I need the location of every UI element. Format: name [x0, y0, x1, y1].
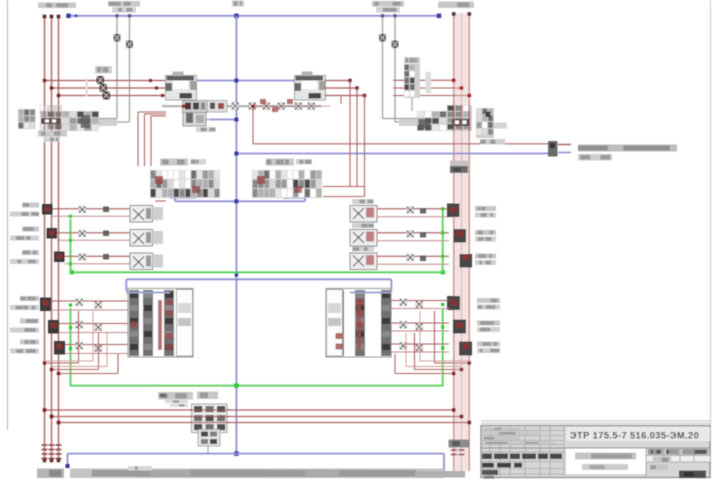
contact — [400, 343, 407, 350]
junction — [149, 79, 152, 82]
fuse overlay red marks — [260, 99, 266, 104]
circuit breaker QF1 — [40, 105, 62, 130]
label under QF2 — [480, 139, 505, 145]
bus breaker KM5 — [460, 254, 473, 268]
bus lines through QF1 — [44, 105, 46, 130]
label under QF1 — [38, 131, 67, 137]
green vertical right lower — [442, 308, 444, 386]
title grid v — [499, 426, 501, 478]
wire upper — [391, 322, 449, 324]
blue tab on K2 — [350, 292, 391, 294]
label 2VL line2 — [10, 236, 39, 241]
bus bottom ladder marks — [42, 444, 48, 446]
wire lower — [391, 330, 449, 332]
blue tab under starter A2 — [283, 197, 305, 199]
bus top terminal — [57, 15, 61, 19]
rows above title block 2 — [481, 422, 710, 424]
green junction — [69, 326, 72, 329]
right bus top terminal 2 — [467, 12, 471, 16]
label TV3 right2 — [477, 348, 500, 353]
bus lines through QF2 — [453, 105, 455, 131]
green vertical left upper — [70, 219, 72, 272]
contactor coil KM1 — [183, 111, 206, 127]
label above right control pair line1 — [372, 1, 404, 7]
blue tab on K1 — [126, 292, 170, 294]
switch box KM3 — [350, 206, 377, 223]
contact — [76, 299, 83, 306]
tap node on blue 2 — [393, 14, 396, 17]
grid — [679, 448, 681, 462]
left bus L3 — [58, 16, 60, 461]
K1 bottom fan wire 1 — [45, 362, 79, 364]
label KM5 right2 — [475, 260, 496, 265]
AVR device block — [192, 404, 228, 433]
grid — [693, 448, 695, 462]
junction on bus2 — [452, 372, 455, 375]
K2 bottom fan wire 2 — [415, 369, 462, 371]
title grid v — [524, 426, 526, 478]
fuse-switch box — [130, 206, 153, 223]
contact — [76, 322, 83, 329]
row wire upper — [53, 208, 131, 210]
contact2 — [95, 302, 102, 309]
darker patch 3 — [415, 471, 465, 478]
faint note under AVR label — [165, 400, 188, 403]
light tail from right tap pair — [399, 119, 417, 126]
blue bottom bus — [68, 453, 445, 455]
row contact — [407, 255, 414, 261]
right control tap pair — [382, 16, 384, 119]
row wire upper — [65, 255, 131, 257]
current transformer cluster TA1 — [18, 109, 36, 129]
bus joint shadow — [450, 161, 468, 167]
row mark — [420, 232, 426, 238]
title grid h2 — [481, 473, 564, 475]
blue link contactor1-contactor2 — [196, 80, 295, 82]
label above left control pair line2 — [112, 7, 136, 13]
bus top terminal — [43, 15, 47, 19]
label above right control pair line2 — [376, 7, 400, 13]
node — [234, 79, 238, 83]
row contact — [79, 207, 86, 213]
red stub after connector — [558, 144, 571, 146]
junction — [348, 79, 351, 82]
right tap bend — [383, 118, 450, 120]
power wire from KM2 — [325, 95, 365, 97]
stage val — [653, 457, 671, 464]
right tap fuse 1 — [379, 34, 386, 42]
green vertical left lower — [70, 308, 72, 386]
left bus L2 — [51, 16, 53, 461]
chain contact 7 — [295, 103, 302, 110]
bus top terminal — [50, 15, 54, 19]
label TV22 — [10, 328, 39, 333]
aux contacts row — [207, 101, 227, 113]
wire lower — [51, 309, 128, 311]
chain contact 6 — [278, 103, 285, 110]
label KM5 — [352, 247, 374, 252]
node small — [75, 15, 78, 18]
right bus bottom ladder marks — [451, 449, 457, 451]
row wire upper — [377, 208, 449, 210]
node blue top left — [66, 14, 71, 18]
row mark — [103, 207, 109, 213]
stage values cell — [646, 456, 710, 463]
junction — [363, 94, 366, 97]
chain contact 3 — [232, 103, 239, 110]
starter2 right-side loop — [323, 186, 365, 188]
tap node on blue — [115, 14, 118, 17]
title row text dark2 — [482, 470, 498, 475]
wire upper — [391, 300, 449, 302]
green junction — [69, 347, 72, 350]
label starter A2 — [266, 159, 294, 166]
label KM4 right2 — [475, 237, 496, 242]
label TV1 right — [477, 298, 500, 303]
bus joint bar — [450, 166, 468, 173]
wire lower — [59, 332, 128, 334]
K2 fan extra v — [419, 311, 421, 361]
K2 fan extra2 — [406, 366, 462, 368]
junction — [161, 94, 164, 97]
label TV2 right2 — [477, 327, 500, 332]
label 3VL line2 — [10, 259, 39, 264]
junction left — [43, 408, 47, 412]
control feed long red — [253, 143, 549, 145]
AVR bus wire 1 — [45, 409, 454, 411]
row wire lower — [53, 215, 131, 217]
label TV12 — [10, 305, 39, 310]
label TV2 — [20, 319, 39, 324]
green interlock line upper — [72, 271, 443, 273]
list hdr — [666, 449, 679, 455]
junction — [155, 87, 158, 90]
faint row3 — [483, 437, 520, 440]
power wire from KM2 — [325, 80, 351, 82]
dark sheet number blob — [679, 471, 706, 479]
bus breaker KM4 — [454, 229, 467, 243]
short riser to chain — [340, 97, 342, 105]
row contact — [407, 207, 414, 213]
label FU1 — [95, 66, 112, 74]
title grid h2 — [481, 461, 564, 463]
AVR sub block — [198, 430, 220, 447]
QF2 dark contact row — [452, 119, 470, 126]
control interlock chain — [162, 105, 321, 107]
blue control feed line — [236, 153, 548, 155]
title grid v — [509, 426, 511, 478]
green interlock line lower — [70, 385, 444, 387]
junction right — [452, 408, 456, 412]
chain contact 5 — [263, 103, 270, 110]
right bus highlight band — [453, 13, 470, 471]
blue tie line top — [68, 15, 441, 17]
QF2 side chain — [417, 111, 447, 131]
title grid v — [489, 426, 491, 478]
contact — [400, 299, 407, 306]
label KM3 right2 — [475, 213, 496, 218]
junction left — [50, 415, 54, 419]
dark bit in AVR label — [160, 394, 167, 398]
circuit breaker QF2 — [447, 105, 472, 131]
tap node on blue 2 — [128, 14, 131, 17]
grid — [646, 455, 710, 457]
row wire lower — [57, 239, 130, 241]
sheet frame left — [7, 0, 9, 430]
K1 fan extra2 v — [106, 333, 108, 367]
chain dark cell r — [419, 119, 431, 128]
dark cell — [486, 112, 491, 118]
junction red on chain — [251, 105, 254, 108]
row wire lower — [377, 263, 449, 265]
chain contact 2 — [211, 103, 218, 110]
green junction — [441, 346, 444, 349]
project title line1 — [575, 453, 636, 460]
light tail to tap pair — [99, 119, 117, 126]
breaker 3VL — [54, 252, 65, 263]
label TV1 right2 — [477, 305, 500, 310]
title row text dark — [514, 463, 522, 468]
breaker TV3 — [459, 342, 472, 356]
label under bus arrows — [37, 469, 64, 479]
bus2 tap row 3 — [393, 95, 469, 97]
junction on bus2 — [468, 361, 471, 364]
row contact — [79, 254, 86, 260]
title header text dark — [522, 454, 536, 460]
K2 bottom fan wire 3 — [395, 373, 454, 375]
label KM4 — [352, 223, 374, 228]
contactor KM1 — [166, 76, 197, 101]
breaker TV1 — [40, 298, 51, 312]
breaker TV2 — [48, 320, 59, 334]
svg-text:ЭТР 175.5-7 516.035-ЭМ.20: ЭТР 175.5-7 516.035-ЭМ.20 — [570, 431, 699, 441]
blue relay top link — [126, 278, 391, 280]
faint note under AVR label 2 — [170, 404, 188, 407]
blue tab under starter A1 — [170, 197, 196, 199]
chain contact 1 — [186, 103, 193, 110]
blue stub after connector — [558, 152, 571, 154]
label TV1 — [20, 296, 39, 301]
K1 bottom fan wire 2 — [52, 369, 99, 371]
row wire lower — [377, 240, 449, 242]
org line — [650, 465, 668, 471]
listov hdr — [682, 449, 708, 455]
faint row2 — [483, 432, 538, 435]
label TV2 right — [477, 321, 500, 326]
wire — [206, 119, 210, 121]
power wire phase 3 to contactor KM1 — [59, 95, 167, 97]
faint row — [483, 428, 520, 431]
title grid v right — [645, 448, 647, 478]
junction red on chain 2 — [182, 105, 185, 108]
light strip — [426, 72, 432, 94]
label 1VL line2 — [10, 212, 39, 217]
label TV3 right — [477, 342, 500, 347]
label TV3 — [20, 340, 39, 345]
right bus bottom connector — [449, 440, 470, 448]
title header text dark — [550, 454, 562, 460]
label starter A1 — [160, 159, 188, 166]
power wire from KM2 — [325, 87, 358, 89]
title grid v — [563, 426, 565, 478]
junction on bus — [50, 368, 53, 371]
contact2 — [95, 324, 102, 331]
row mark — [420, 256, 426, 262]
wire upper — [51, 300, 128, 302]
green junction — [69, 303, 72, 306]
QF1 dark contact row — [41, 118, 61, 124]
title grid v — [549, 426, 551, 478]
K2 fan extra2 v — [405, 333, 407, 367]
left tap fuse 1 — [114, 34, 121, 42]
project title line2 — [582, 464, 628, 470]
K1 fan extra v — [92, 311, 94, 361]
drop to QF2 chain — [411, 98, 413, 111]
doc number cell — [566, 427, 710, 441]
label: input feeder 1 title — [38, 3, 76, 9]
node center bottom — [234, 451, 239, 456]
node — [234, 152, 238, 156]
title grid h — [481, 430, 564, 432]
starter block A1 — [150, 170, 220, 198]
label above left control pair line1 — [108, 1, 140, 7]
left tap bend — [63, 118, 117, 120]
K1 bottom fan wire 3 — [59, 373, 119, 375]
K2 fan extra — [420, 360, 469, 362]
green vertical right upper — [442, 208, 444, 272]
junction — [50, 86, 53, 89]
starter2 terminal block — [303, 185, 322, 198]
left 3-phase bus L1 — [44, 16, 46, 461]
relay assembly K1 (left) — [128, 289, 193, 358]
junction right — [467, 421, 471, 425]
small note — [128, 466, 152, 471]
label KM4 right — [475, 230, 496, 235]
contactor KM2 — [295, 76, 326, 101]
junction — [355, 86, 358, 89]
K2 bottom fan wire 1 — [435, 362, 470, 364]
current transformer cluster TA2 — [476, 108, 494, 138]
power wire phase 2 to contactor KM1 — [52, 87, 167, 89]
fuse-switch box — [130, 253, 153, 270]
right bus top terminal — [452, 12, 456, 16]
switch box KM5 — [350, 253, 377, 270]
title row text dark — [482, 463, 494, 468]
blue starter bottom link — [175, 200, 305, 202]
control wire tint along chain — [253, 105, 330, 107]
label starter A2b — [296, 159, 312, 165]
junction on bus2 — [452, 79, 456, 83]
row wire lower — [377, 216, 449, 218]
fuse set FU1 (staggered) — [97, 76, 105, 84]
contact2 — [95, 345, 102, 352]
bus bottom tip — [57, 459, 61, 463]
green junction — [441, 325, 444, 328]
junction left — [57, 421, 61, 425]
terminal connector X1 — [548, 141, 558, 157]
title grid h main — [481, 447, 710, 449]
wire lower — [65, 353, 128, 355]
green node — [441, 270, 445, 274]
row contact — [407, 231, 414, 237]
grid — [663, 448, 665, 462]
breaker TV2 — [453, 320, 466, 334]
row mark — [420, 208, 426, 214]
row wire upper — [57, 232, 130, 234]
label KM3 right — [475, 206, 496, 211]
green node center — [234, 383, 239, 388]
drop wire to starter1 — [144, 114, 146, 166]
contact2 — [416, 324, 423, 331]
chain contact 4 — [249, 103, 256, 110]
title grid h — [481, 440, 564, 442]
relay assembly K2 (right) — [326, 289, 391, 358]
breaker 1VL — [42, 204, 53, 215]
label AVR device — [158, 392, 193, 400]
row contact — [79, 231, 86, 237]
row mark — [103, 231, 109, 237]
label: input feeder 2 title — [438, 2, 474, 9]
label: top center — [232, 1, 244, 7]
note: power of AVR control circuits — [578, 145, 677, 152]
starter block A2 — [252, 170, 322, 198]
bus bottom tip — [50, 459, 54, 463]
wire lower — [391, 351, 449, 353]
title header text dark — [538, 454, 548, 460]
title row text dark — [497, 463, 511, 468]
wire upper — [65, 344, 128, 346]
title grid h2 — [481, 468, 564, 470]
blue bottom-left arrow — [66, 464, 70, 468]
drop wire — [356, 88, 358, 187]
label 1VL — [22, 203, 39, 208]
AVR sub block stub — [207, 446, 209, 454]
left control tap pair — [116, 16, 118, 119]
bus2 tap row 2 — [393, 87, 462, 89]
junction on bus2 — [460, 368, 463, 371]
label TV32 — [10, 349, 39, 354]
K1 fan extra2 — [52, 366, 108, 368]
bus bottom tip — [43, 459, 47, 463]
contact2 — [416, 301, 423, 308]
wire upper — [59, 323, 128, 325]
control loop wire down — [252, 106, 254, 144]
label bus2 taps — [404, 57, 420, 64]
title header text dark — [510, 454, 520, 460]
label starter A1b — [190, 159, 206, 165]
label 2VL — [22, 227, 39, 232]
contact2 — [416, 345, 423, 352]
switch box KM4 — [350, 230, 377, 247]
drop wire to starter1 — [137, 112, 139, 166]
fuse-switch box — [130, 230, 153, 247]
green junction — [441, 207, 444, 210]
junction — [43, 79, 46, 82]
title grid h — [481, 435, 564, 437]
rows above title block — [481, 420, 710, 422]
green junction — [441, 255, 444, 258]
chain dark cell — [81, 115, 90, 128]
green junction — [69, 215, 72, 218]
junction on bus2 — [460, 86, 464, 90]
AVR bus wire 3 — [59, 422, 470, 424]
title header text dark — [482, 454, 492, 460]
drop wire — [364, 96, 366, 197]
row mark — [103, 254, 109, 260]
node — [234, 199, 238, 203]
bus breaker KM3 — [447, 204, 460, 218]
green junction — [69, 262, 72, 265]
